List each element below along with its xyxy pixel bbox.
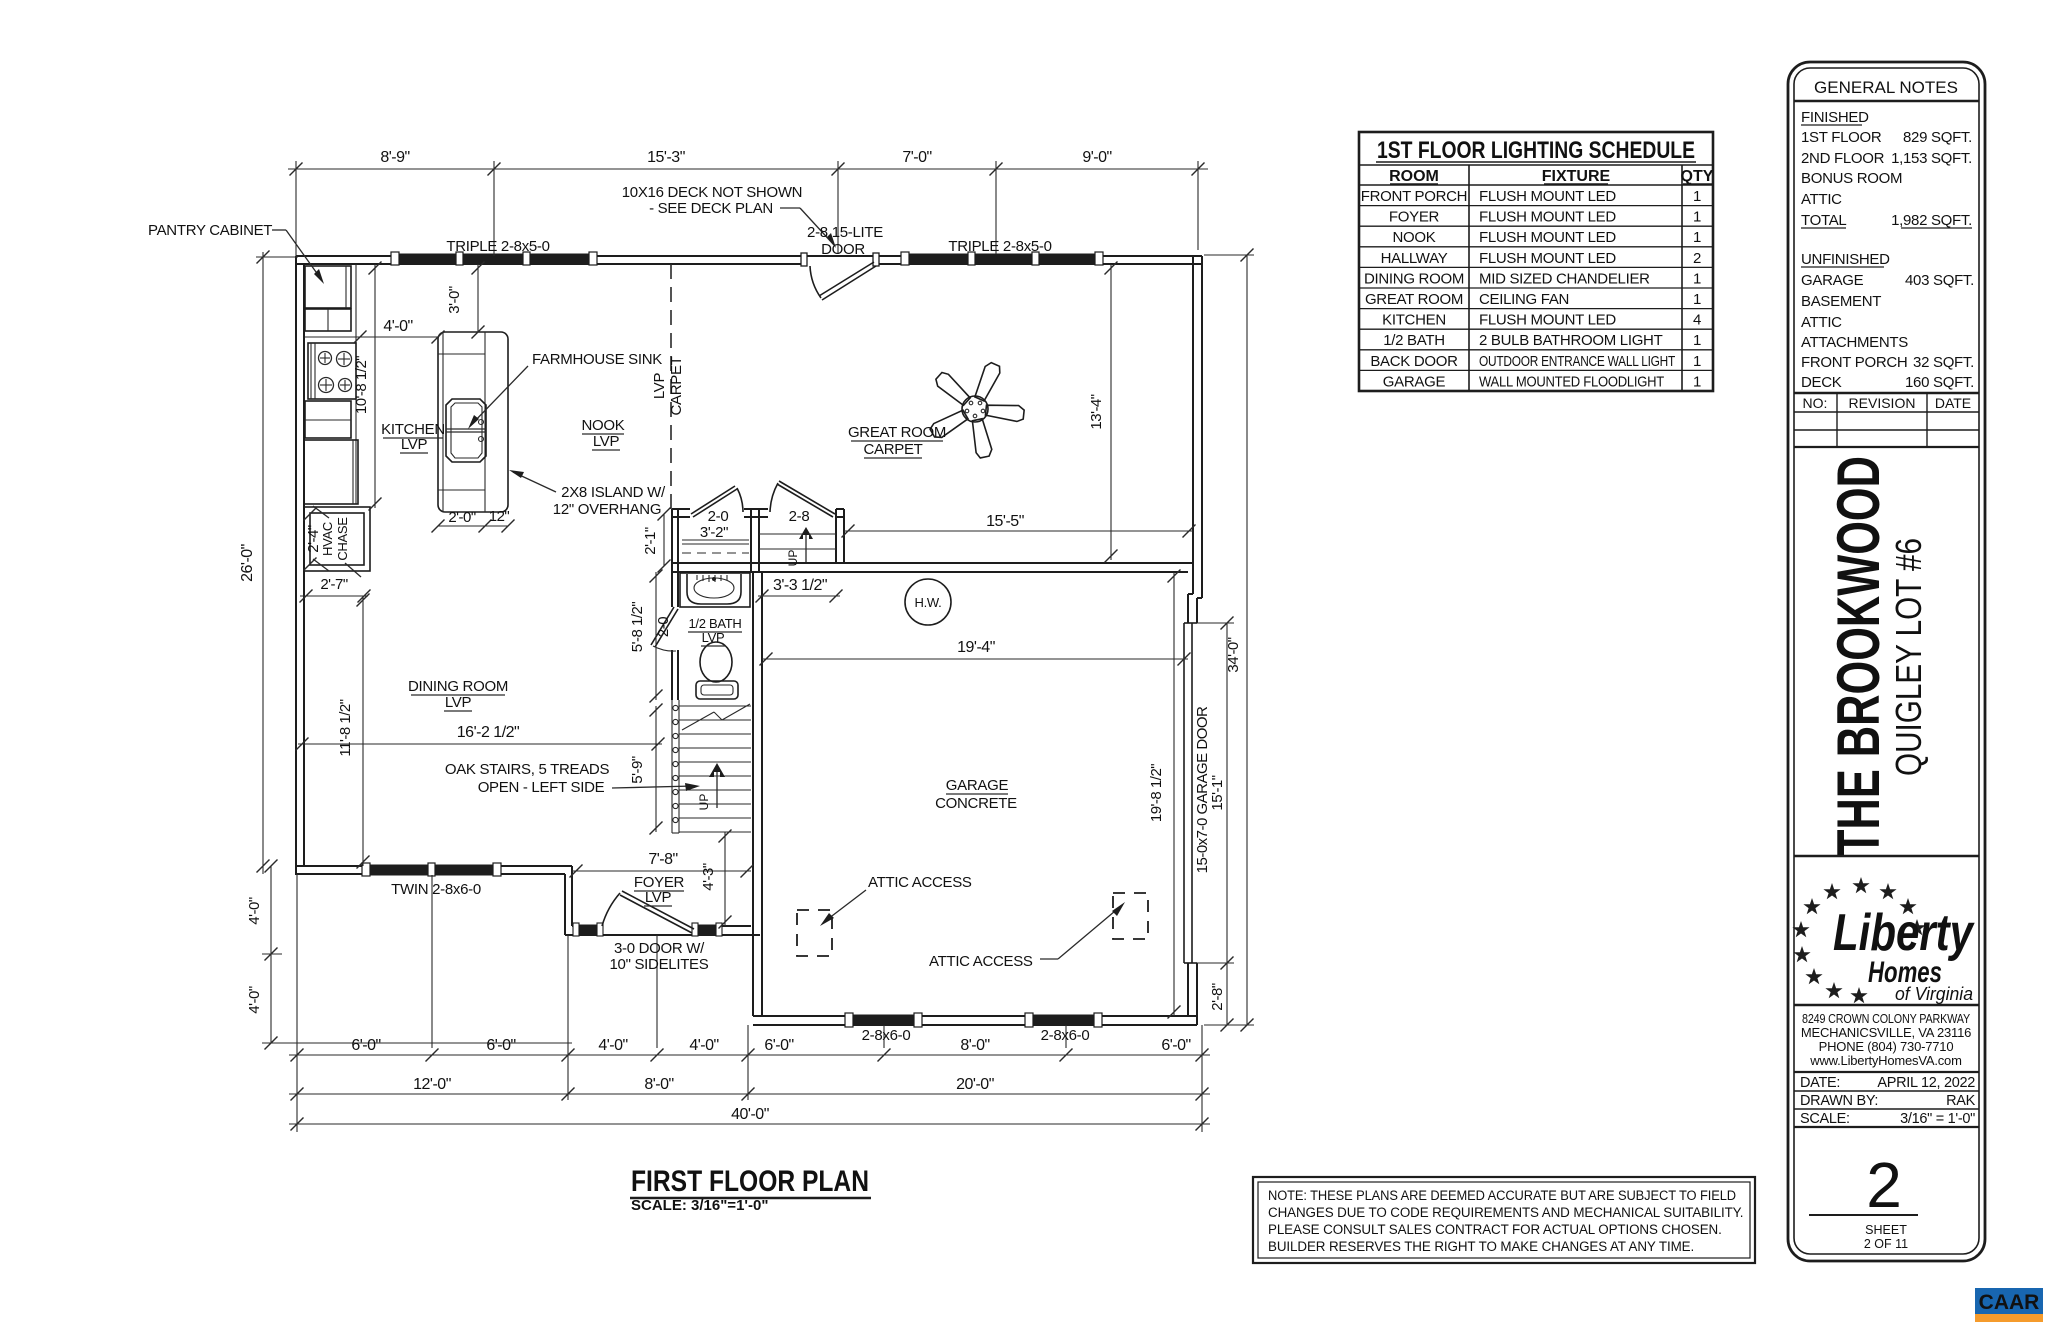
liberty logo stars <box>1792 877 1925 1003</box>
svg-text:ATTIC ACCESS: ATTIC ACCESS <box>868 874 972 891</box>
svg-text:ATTIC ACCESS: ATTIC ACCESS <box>929 953 1033 970</box>
svg-text:DATE: DATE <box>1935 395 1971 411</box>
svg-text:2: 2 <box>1866 1149 1902 1221</box>
dim chain bottom row3 <box>289 1106 1210 1131</box>
svg-text:2-8: 2-8 <box>789 508 810 525</box>
dim 19'-8 1/2" garage <box>1148 570 1181 1019</box>
dim 15'-5" great room <box>842 513 1196 538</box>
label island + leader <box>509 470 666 518</box>
svg-text:OUTDOOR ENTRANCE WALL LIGHT: OUTDOOR ENTRANCE WALL LIGHT <box>1479 353 1675 370</box>
svg-text:UP: UP <box>786 550 800 567</box>
svg-text:WALL MOUNTED FLOODLIGHT: WALL MOUNTED FLOODLIGHT <box>1479 373 1664 390</box>
svg-text:GARAGE: GARAGE <box>1801 272 1864 289</box>
svg-text:BONUS ROOM: BONUS ROOM <box>1801 170 1902 187</box>
stairs UP arrow <box>697 763 725 810</box>
dim 5'-9" stairs <box>629 704 663 835</box>
window twin 2-8x6-0 <box>362 863 501 876</box>
svg-text:SCALE: 3/16"=1'-0": SCALE: 3/16"=1'-0" <box>631 1197 768 1214</box>
svg-text:CHASE: CHASE <box>335 517 350 561</box>
schedule header <box>1389 168 1714 185</box>
svg-text:6'-0": 6'-0" <box>486 1037 515 1054</box>
closet shelf lines <box>682 540 749 553</box>
svg-text:1: 1 <box>1693 291 1701 308</box>
dim chain bottom row1 <box>289 874 1210 1132</box>
svg-text:1: 1 <box>1693 188 1701 205</box>
door closet 2-0 swing <box>691 486 743 517</box>
svg-text:FRONT PORCH: FRONT PORCH <box>1361 188 1467 205</box>
svg-text:GREAT ROOM: GREAT ROOM <box>848 424 946 441</box>
svg-text:of Virginia: of Virginia <box>1895 984 1973 1004</box>
svg-text:FARMHOUSE SINK: FARMHOUSE SINK <box>532 351 662 368</box>
island counter 2x8 <box>438 332 508 512</box>
svg-text:10X16 DECK NOT SHOWN: 10X16 DECK NOT SHOWN <box>622 184 802 201</box>
svg-text:2: 2 <box>1693 250 1701 267</box>
svg-text:2'-1": 2'-1" <box>642 527 659 555</box>
dim 34'-0" right <box>1204 249 1254 1032</box>
dim 4'-0" counter to island <box>354 318 445 344</box>
svg-text:2'-7": 2'-7" <box>320 576 348 593</box>
svg-text:FOYER: FOYER <box>1389 209 1440 226</box>
svg-text:NOTE: THESE PLANS ARE DEEMED A: NOTE: THESE PLANS ARE DEEMED ACCURATE BU… <box>1268 1188 1736 1203</box>
svg-text:APRIL 12, 2022: APRIL 12, 2022 <box>1877 1075 1975 1091</box>
attic access box 2 <box>1113 893 1148 939</box>
svg-text:PANTRY CABINET: PANTRY CABINET <box>148 222 272 239</box>
svg-text:DINING ROOM: DINING ROOM <box>408 678 508 695</box>
svg-text:LVP: LVP <box>651 373 668 400</box>
stair open rail balusters <box>672 700 679 833</box>
svg-text:5'-8 1/2": 5'-8 1/2" <box>629 602 646 653</box>
svg-text:DRAWN BY:: DRAWN BY: <box>1800 1093 1878 1109</box>
revision table <box>1794 393 1979 447</box>
dim chain top <box>288 149 1208 256</box>
bath toilet <box>696 642 738 699</box>
label closet doors <box>700 508 810 541</box>
svg-text:16'-2 1/2": 16'-2 1/2" <box>457 724 519 741</box>
svg-text:LVP: LVP <box>593 433 620 450</box>
wall exterior top <box>296 256 1202 264</box>
dim 4'-0" 4'-0" left lower <box>246 860 572 1050</box>
svg-text:2 OF 11: 2 OF 11 <box>1864 1237 1908 1251</box>
dim 13'-4" great room <box>1088 262 1118 563</box>
schedule rows <box>1361 188 1701 390</box>
door stairhall 2-8 swing <box>770 481 835 517</box>
svg-text:2-8x6-0: 2-8x6-0 <box>862 1027 911 1044</box>
svg-text:13'-4": 13'-4" <box>1088 394 1105 429</box>
svg-text:FLUSH MOUNT LED: FLUSH MOUNT LED <box>1479 209 1616 226</box>
dim 7'-8" foyer <box>570 851 754 878</box>
svg-text:CHANGES DUE TO CODE REQUIREMEN: CHANGES DUE TO CODE REQUIREMENTS AND MEC… <box>1268 1205 1743 1220</box>
svg-text:1/2 BATH: 1/2 BATH <box>689 616 742 631</box>
label half bath <box>688 616 742 646</box>
svg-text:15'-1": 15'-1" <box>1209 775 1226 810</box>
svg-text:4'-0": 4'-0" <box>689 1037 718 1054</box>
svg-text:FLUSH MOUNT LED: FLUSH MOUNT LED <box>1479 250 1616 267</box>
label front door <box>610 940 709 973</box>
svg-text:1: 1 <box>1693 229 1701 246</box>
svg-text:3'-3 1/2": 3'-3 1/2" <box>773 577 827 594</box>
window triple 2-8x5-0 right <box>901 252 1103 265</box>
svg-text:2-0: 2-0 <box>708 508 729 525</box>
svg-text:1: 1 <box>1693 209 1701 226</box>
dim 2'-4" hvac <box>304 508 323 571</box>
dim 10'-8 1/2" kitchen <box>353 262 382 511</box>
svg-text:1ST FLOOR: 1ST FLOOR <box>1801 129 1882 146</box>
date drawn scale rows <box>1794 1072 1979 1127</box>
svg-text:SCALE:: SCALE: <box>1800 1111 1850 1127</box>
lighting schedule table <box>1359 132 1713 391</box>
svg-text:KITCHEN: KITCHEN <box>1382 312 1446 329</box>
stair treads <box>679 704 751 832</box>
svg-text:11'-8 1/2": 11'-8 1/2" <box>337 699 354 756</box>
label garage <box>935 777 1017 812</box>
svg-text:2-8x6-0: 2-8x6-0 <box>1041 1027 1090 1044</box>
wall garage south w/ windows <box>753 1016 1197 1025</box>
dim 26'-0" left <box>239 251 298 875</box>
svg-text:6'-0": 6'-0" <box>1161 1037 1190 1054</box>
dim 2'-7" below hvac <box>300 576 371 603</box>
label pantry cabinet + leader <box>148 222 324 284</box>
range cooktop <box>308 343 356 399</box>
landing UP arrow <box>786 527 813 566</box>
note box <box>1253 1177 1755 1263</box>
wall dining south w/ twin window <box>296 866 572 874</box>
dim 4'-3" foyer <box>700 830 732 929</box>
great room ceiling fan <box>929 361 1025 459</box>
svg-text:DOOR: DOOR <box>821 241 865 258</box>
svg-text:HALLWAY: HALLWAY <box>1381 250 1448 267</box>
svg-text:26'-0": 26'-0" <box>239 544 256 582</box>
svg-text:1/2 BATH: 1/2 BATH <box>1383 332 1445 349</box>
svg-text:GENERAL NOTES: GENERAL NOTES <box>1814 78 1958 97</box>
svg-text:DINING ROOM: DINING ROOM <box>1364 270 1464 287</box>
label great room <box>848 424 946 458</box>
label oak stairs + leader <box>445 761 700 796</box>
svg-text:NO:: NO: <box>1803 395 1828 411</box>
general notes finished list <box>1801 109 1972 229</box>
svg-text:PHONE (804) 730-7710: PHONE (804) 730-7710 <box>1819 1039 1954 1054</box>
svg-text:REVISION: REVISION <box>1849 395 1916 411</box>
pantry cabinet box <box>305 266 356 337</box>
svg-text:FLUSH MOUNT LED: FLUSH MOUNT LED <box>1479 229 1616 246</box>
svg-text:RAK: RAK <box>1946 1093 1976 1109</box>
svg-text:FIRST FLOOR PLAN: FIRST FLOOR PLAN <box>631 1165 869 1198</box>
wall foyer west <box>565 866 572 935</box>
svg-text:403 SQFT.: 403 SQFT. <box>1905 272 1974 289</box>
wall nook south w/ openings <box>672 509 844 517</box>
bath door 2-0 swing <box>651 607 678 651</box>
svg-text:20'-0": 20'-0" <box>956 1076 994 1093</box>
dim 5'-8 1/2" bath <box>629 570 663 703</box>
svg-text:4: 4 <box>1693 312 1701 329</box>
liberty logo script <box>1833 904 1975 1004</box>
svg-text:2-0: 2-0 <box>655 617 672 637</box>
svg-text:4'-3": 4'-3" <box>700 863 717 891</box>
svg-text:FRONT PORCH: FRONT PORCH <box>1801 354 1907 371</box>
svg-text:CEILING FAN: CEILING FAN <box>1479 291 1569 308</box>
sheet number <box>1809 1149 1918 1251</box>
dim island 2'-0" 12" <box>432 508 515 533</box>
label nook <box>582 417 625 450</box>
dim 3'-0" window to island <box>446 262 485 339</box>
svg-text:FINISHED: FINISHED <box>1801 109 1869 126</box>
label foyer <box>634 874 685 906</box>
svg-text:ATTIC: ATTIC <box>1801 191 1842 208</box>
svg-text:1: 1 <box>1693 353 1701 370</box>
svg-text:5'-9": 5'-9" <box>629 756 646 784</box>
liberty logo section <box>1794 856 1979 1005</box>
label back door <box>807 224 883 258</box>
wall great room east <box>1188 256 1202 598</box>
svg-text:LVP: LVP <box>401 436 428 453</box>
svg-text:1: 1 <box>1693 270 1701 287</box>
svg-text:SHEET: SHEET <box>1865 1223 1907 1237</box>
svg-text:FLUSH MOUNT LED: FLUSH MOUNT LED <box>1479 312 1616 329</box>
svg-text:NOOK: NOOK <box>1393 229 1436 246</box>
svg-text:2X8 ISLAND W/: 2X8 ISLAND W/ <box>561 484 666 501</box>
svg-text:1: 1 <box>1693 332 1701 349</box>
svg-text:12" OVERHANG: 12" OVERHANG <box>553 501 661 518</box>
svg-text:OPEN - LEFT SIDE: OPEN - LEFT SIDE <box>478 779 605 796</box>
svg-text:3'-0": 3'-0" <box>446 286 463 314</box>
svg-text:TRIPLE 2-8x5-0: TRIPLE 2-8x5-0 <box>948 238 1051 255</box>
svg-text:THE BROOKWOOD: THE BROOKWOOD <box>1825 456 1892 856</box>
svg-text:MID SIZED CHANDELIER: MID SIZED CHANDELIER <box>1479 270 1650 287</box>
label attic access 2 + leader <box>929 902 1125 970</box>
wall closet column left <box>672 509 678 700</box>
svg-text:www.LibertyHomesVA.com: www.LibertyHomesVA.com <box>1809 1053 1961 1068</box>
plan name vertical THE BROOKWOOD <box>1825 456 1929 856</box>
svg-text:MECHANICSVILLE, VA 23116: MECHANICSVILLE, VA 23116 <box>1801 1025 1971 1040</box>
svg-text:2 BULB BATHROOM LIGHT: 2 BULB BATHROOM LIGHT <box>1479 332 1663 349</box>
svg-text:2ND FLOOR: 2ND FLOOR <box>1801 150 1885 167</box>
svg-text:GARAGE: GARAGE <box>1383 373 1446 390</box>
stair landing treads <box>759 534 836 549</box>
wall foyer front w/ door opening <box>565 926 760 935</box>
svg-text:4'-0": 4'-0" <box>246 897 263 925</box>
base cabinets below range <box>304 401 358 504</box>
kitchen counter edge <box>304 264 356 504</box>
hw water heater <box>905 579 951 625</box>
svg-text:19'-8 1/2": 19'-8 1/2" <box>1148 764 1165 822</box>
title block frame <box>1788 62 1985 1261</box>
wall exterior left <box>296 256 304 875</box>
svg-text:TWIN 2-8x6-0: TWIN 2-8x6-0 <box>391 881 481 898</box>
front door sidelites <box>573 923 722 936</box>
address block <box>1801 1011 1971 1068</box>
svg-text:ATTACHMENTS: ATTACHMENTS <box>1801 334 1908 351</box>
svg-text:10" SIDELITES: 10" SIDELITES <box>610 956 709 973</box>
svg-text:12": 12" <box>489 508 510 525</box>
svg-text:2-8 15-LITE: 2-8 15-LITE <box>807 224 883 241</box>
svg-text:2'-0": 2'-0" <box>448 509 476 526</box>
wall great room south / garage north <box>672 563 1193 572</box>
svg-text:3-0 DOOR W/: 3-0 DOOR W/ <box>614 940 705 957</box>
svg-text:6'-0": 6'-0" <box>351 1037 380 1054</box>
svg-text:8'-0": 8'-0" <box>644 1076 673 1093</box>
general notes unfinished list <box>1801 251 1974 391</box>
svg-text:QTY: QTY <box>1681 168 1714 185</box>
svg-text:15'-3": 15'-3" <box>647 149 685 166</box>
svg-text:8'-0": 8'-0" <box>960 1037 989 1054</box>
label farmhouse sink + leader <box>468 351 662 429</box>
svg-text:4'-0": 4'-0" <box>383 318 412 335</box>
svg-text:CARPET: CARPET <box>668 356 685 415</box>
svg-text:OAK STAIRS, 5 TREADS: OAK STAIRS, 5 TREADS <box>445 761 610 778</box>
sheet title first floor plan <box>630 1165 871 1214</box>
svg-text:UNFINISHED: UNFINISHED <box>1801 251 1890 268</box>
svg-text:H.W.: H.W. <box>915 595 942 610</box>
label dining room <box>408 678 508 711</box>
dim 16'-2 1/2" dining <box>296 724 665 751</box>
svg-text:GARAGE: GARAGE <box>946 777 1009 794</box>
svg-text:GREAT ROOM: GREAT ROOM <box>1365 291 1463 308</box>
back door 2-8 15-lite swing <box>801 253 879 300</box>
caar logo <box>1975 1288 2043 1322</box>
label kitchen <box>381 421 445 453</box>
lvp carpet divider dashed <box>670 264 672 509</box>
dim 11'-8 1/2" dining <box>337 594 370 869</box>
wall garage east w/ garage door <box>1184 594 1197 1025</box>
svg-text:TRIPLE 2-8x5-0: TRIPLE 2-8x5-0 <box>446 238 549 255</box>
svg-text:HVAC: HVAC <box>320 522 335 556</box>
svg-text:19'-4": 19'-4" <box>957 639 995 656</box>
svg-text:1,982 SQFT.: 1,982 SQFT. <box>1891 212 1972 229</box>
schedule title <box>1376 137 1696 164</box>
wall column right <box>751 509 759 572</box>
general notes header <box>1794 78 1979 101</box>
wall stair landing right <box>836 509 844 563</box>
svg-text:FLUSH MOUNT LED: FLUSH MOUNT LED <box>1479 188 1616 205</box>
svg-text:3'-2": 3'-2" <box>700 524 728 541</box>
svg-text:LVP: LVP <box>445 694 472 711</box>
svg-text:2'-8": 2'-8" <box>1209 983 1226 1011</box>
svg-text:1: 1 <box>1693 373 1701 390</box>
svg-text:BUILDER RESERVES THE RIGHT TO: BUILDER RESERVES THE RIGHT TO MAKE CHANG… <box>1268 1239 1694 1254</box>
svg-text:NOOK: NOOK <box>582 417 625 434</box>
svg-text:829 SQFT.: 829 SQFT. <box>1903 129 1972 146</box>
dim chain bottom row2 <box>289 1076 1210 1101</box>
attic access box 1 <box>797 910 832 956</box>
svg-text:2'-4": 2'-4" <box>305 525 322 553</box>
svg-text:CARPET: CARPET <box>863 441 922 458</box>
svg-text:12'-0": 12'-0" <box>413 1076 451 1093</box>
svg-text:LVP: LVP <box>645 889 672 906</box>
dim 3'-3 1/2" hall <box>756 577 843 603</box>
svg-text:UP: UP <box>697 794 711 811</box>
svg-text:9'-0": 9'-0" <box>1082 149 1111 166</box>
svg-text:DECK: DECK <box>1801 374 1842 391</box>
dim 19'-4" garage top <box>760 639 1191 666</box>
svg-text:6'-0": 6'-0" <box>764 1037 793 1054</box>
window garage 2-8x6-0 left <box>845 1013 922 1027</box>
svg-text:QUIGLEY LOT #6: QUIGLEY LOT #6 <box>1888 538 1929 776</box>
window garage 2-8x6-0 right <box>1025 1013 1102 1027</box>
svg-text:DATE:: DATE: <box>1800 1075 1840 1091</box>
svg-text:CAAR: CAAR <box>1979 1291 2040 1314</box>
svg-text:15'-5": 15'-5" <box>986 513 1024 530</box>
svg-text:ROOM: ROOM <box>1389 168 1439 185</box>
svg-text:4'-0": 4'-0" <box>598 1037 627 1054</box>
svg-text:8'-9": 8'-9" <box>380 149 409 166</box>
bath vanity sink <box>680 573 750 607</box>
label deck note + leader <box>622 184 836 248</box>
svg-text:32 SQFT.: 32 SQFT. <box>1913 354 1974 371</box>
svg-text:TOTAL: TOTAL <box>1801 212 1846 229</box>
svg-text:1,153 SQFT.: 1,153 SQFT. <box>1891 150 1972 167</box>
wall garage west <box>753 572 762 1016</box>
svg-text:FIXTURE: FIXTURE <box>1542 168 1611 185</box>
svg-text:LVP: LVP <box>702 630 725 645</box>
hvac chase <box>304 506 370 577</box>
label attic access 1 + leader <box>820 874 972 926</box>
dim 2'-1" closet <box>642 508 671 573</box>
farmhouse sink in island <box>446 399 486 462</box>
front door 3-0 swing <box>602 891 694 933</box>
label garage windows <box>862 1027 1090 1044</box>
svg-text:8249 CROWN COLONY PARKWAY: 8249 CROWN COLONY PARKWAY <box>1802 1011 1970 1026</box>
svg-text:Liberty: Liberty <box>1833 904 1975 962</box>
svg-text:PLEASE CONSULT SALES CONTRACT: PLEASE CONSULT SALES CONTRACT FOR ACTUAL… <box>1268 1222 1722 1237</box>
svg-text:CONCRETE: CONCRETE <box>935 795 1017 812</box>
svg-text:BASEMENT: BASEMENT <box>1801 293 1881 310</box>
svg-text:7'-0": 7'-0" <box>902 149 931 166</box>
svg-text:7'-8": 7'-8" <box>648 851 677 868</box>
label lvp carpet divider <box>651 356 685 415</box>
svg-text:BACK DOOR: BACK DOOR <box>1370 353 1458 370</box>
window triple 2-8x5-0 left <box>391 252 597 265</box>
svg-text:ATTIC: ATTIC <box>1801 314 1842 331</box>
svg-text:160 SQFT.: 160 SQFT. <box>1905 374 1974 391</box>
svg-text:40'-0": 40'-0" <box>731 1106 769 1123</box>
svg-text:4'-0": 4'-0" <box>246 986 263 1014</box>
svg-text:34'-0": 34'-0" <box>1225 637 1242 672</box>
dim garage door 15'-1" right <box>1194 617 1234 1032</box>
svg-text:- SEE DECK PLAN: - SEE DECK PLAN <box>649 200 773 217</box>
svg-text:10'-8 1/2": 10'-8 1/2" <box>353 356 370 414</box>
svg-text:3/16" = 1'-0": 3/16" = 1'-0" <box>1900 1111 1975 1127</box>
svg-text:1ST FLOOR LIGHTING SCHEDULE: 1ST FLOOR LIGHTING SCHEDULE <box>1377 137 1695 164</box>
